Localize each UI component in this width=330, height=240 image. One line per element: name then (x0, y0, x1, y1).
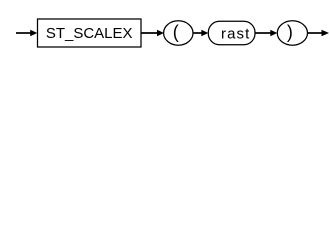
svg-text:): ) (287, 22, 293, 42)
wire box to open-paren (141, 32, 158, 34)
ellipse close-paren (277, 21, 307, 45)
syntax diagram ST_SCALEX(rast) (0, 0, 330, 58)
arrowhead into close-paren (270, 30, 277, 37)
wire open-paren to rast (193, 32, 202, 34)
wire end segment (308, 32, 323, 34)
arrowhead into rast (201, 30, 208, 37)
svg-text:ST_SCALEX: ST_SCALEX (46, 25, 133, 42)
arrowhead into ST_SCALEX box (30, 30, 37, 37)
arrowhead into open-paren (157, 30, 164, 37)
svg-text:rast: rast (221, 26, 250, 43)
arrowhead end (322, 30, 330, 37)
stadium rast (208, 21, 255, 44)
svg-text:(: ( (173, 22, 179, 42)
wire rast to close-paren (255, 32, 271, 34)
ellipse open-paren (164, 21, 193, 45)
wire start segment (16, 32, 31, 34)
box ST_SCALEX (38, 19, 142, 47)
